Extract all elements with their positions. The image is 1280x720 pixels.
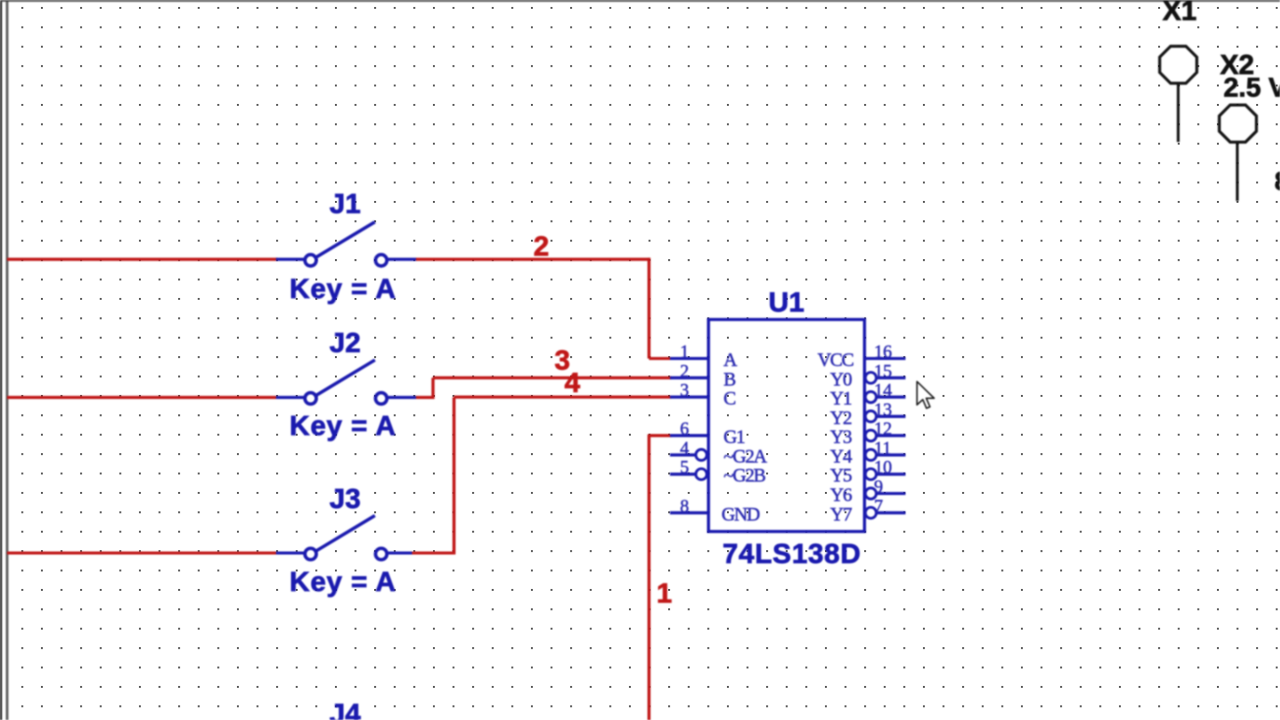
label J4 — [330, 698, 362, 720]
switch J2 — [276, 360, 417, 404]
svg-text:Y4: Y4 — [830, 446, 853, 467]
switch J3 — [276, 516, 413, 560]
pin 5 (~G2B) — [670, 457, 707, 480]
pin name Y7 — [830, 504, 852, 525]
pin 13 (Y2) — [865, 399, 905, 422]
switch J1 — [276, 222, 417, 266]
value label Key = A (J2) — [290, 410, 397, 441]
pin name ~G2B — [724, 466, 766, 487]
pin 8 (GND) — [670, 496, 709, 516]
label J3 — [330, 483, 361, 514]
pin name C — [724, 389, 736, 410]
svg-text:~G2A: ~G2A — [724, 446, 768, 467]
svg-text:Y2: Y2 — [830, 408, 852, 429]
svg-text:C: C — [724, 389, 736, 410]
label X3 (clipped at right edge) — [1275, 166, 1280, 196]
wire net4 J3 to pin3 — [412, 397, 672, 554]
pin name G1 — [724, 427, 746, 448]
mouse cursor — [917, 382, 934, 409]
pin name Y3 — [830, 427, 852, 448]
svg-text:14: 14 — [874, 380, 892, 400]
pin 12 (Y3) — [865, 419, 905, 442]
value label Key = A (J3) — [290, 566, 397, 597]
wire net4 J3-left segment — [7, 551, 278, 554]
svg-text:J3: J3 — [330, 483, 361, 514]
pin 1 (A) — [670, 342, 709, 362]
svg-text:12: 12 — [874, 419, 892, 439]
svg-text:5: 5 — [680, 457, 689, 477]
svg-text:Key = A: Key = A — [290, 566, 397, 597]
svg-text:G1: G1 — [724, 427, 746, 448]
svg-text:X1: X1 — [1163, 0, 1197, 26]
svg-text:15: 15 — [874, 361, 892, 381]
wire net3 J2 to pin2 — [416, 378, 672, 399]
svg-text:J2: J2 — [330, 327, 361, 358]
label U1 — [769, 287, 805, 318]
pin name Y6 — [830, 485, 852, 506]
label J1 — [330, 188, 361, 219]
net number 3 — [555, 345, 571, 376]
svg-text:Key = A: Key = A — [290, 410, 397, 441]
pin name Y1 — [830, 389, 852, 410]
svg-text:2: 2 — [680, 361, 689, 381]
svg-text:8: 8 — [1275, 166, 1280, 196]
svg-text:A: A — [724, 350, 738, 371]
svg-text:B: B — [724, 369, 736, 390]
pin 15 (Y0) — [865, 361, 905, 384]
wire net1 G1 to J4 — [649, 434, 672, 720]
svg-text:4: 4 — [680, 438, 689, 458]
pin 4 (~G2A) — [670, 438, 707, 461]
value label 2.5 V (X2) — [1224, 73, 1280, 103]
value label Key = A (J1) — [290, 273, 397, 304]
pin name VCC — [818, 350, 854, 371]
svg-text:Y6: Y6 — [830, 485, 852, 506]
svg-text:1: 1 — [680, 342, 689, 362]
svg-text:Y5: Y5 — [830, 466, 852, 487]
pin 14 (Y1) — [865, 380, 905, 403]
pin name B — [724, 369, 736, 390]
label X1 — [1163, 0, 1197, 26]
svg-text:6: 6 — [680, 419, 689, 439]
pin 7 (Y7) — [865, 496, 905, 519]
net number 1 — [657, 578, 673, 609]
svg-text:J1: J1 — [330, 188, 361, 219]
svg-text:Y0: Y0 — [830, 369, 852, 390]
svg-text:11: 11 — [874, 438, 891, 458]
svg-text:8: 8 — [680, 496, 689, 516]
svg-text:74LS138D: 74LS138D — [723, 538, 862, 569]
pin name ~G2A — [724, 446, 768, 467]
pin 16 (VCC) — [865, 342, 906, 362]
pin 10 (Y5) — [865, 457, 905, 480]
pin 9 (Y6) — [865, 477, 905, 500]
svg-text:13: 13 — [874, 399, 892, 419]
probe X2 — [1219, 105, 1256, 201]
svg-text:2.5 V: 2.5 V — [1224, 73, 1280, 103]
svg-text:VCC: VCC — [818, 350, 854, 371]
pin 11 (Y4) — [865, 438, 905, 461]
wire net2 J1 to pin1 — [416, 258, 672, 359]
svg-text:Y1: Y1 — [830, 389, 852, 410]
pin name Y2 — [830, 408, 852, 429]
svg-text:GND: GND — [722, 504, 760, 525]
svg-text:1: 1 — [657, 578, 673, 609]
value label 74LS138D — [723, 538, 862, 569]
pin name Y5 — [830, 466, 852, 487]
svg-text:J4: J4 — [330, 698, 362, 720]
pin name GND — [722, 504, 760, 525]
pin name Y0 — [830, 369, 852, 390]
pin name A — [724, 350, 738, 371]
svg-text:9: 9 — [874, 477, 883, 497]
net number 2 — [534, 231, 550, 262]
svg-text:Y7: Y7 — [830, 504, 852, 525]
svg-text:Key = A: Key = A — [290, 273, 397, 304]
svg-text:4: 4 — [565, 367, 581, 398]
label J2 — [330, 327, 361, 358]
svg-text:10: 10 — [874, 457, 892, 477]
op-amp U1 74LS138D body — [709, 320, 865, 532]
net number 4 — [565, 367, 581, 398]
svg-text:Y3: Y3 — [830, 427, 852, 448]
svg-text:2: 2 — [534, 231, 550, 262]
svg-text:U1: U1 — [769, 287, 805, 318]
pin 6 (G1) — [670, 419, 709, 439]
wire net3 J2-left segment — [7, 396, 278, 399]
svg-text:16: 16 — [874, 342, 892, 362]
svg-text:~G2B: ~G2B — [724, 466, 766, 487]
svg-text:3: 3 — [680, 380, 689, 400]
pin 3 (C) — [670, 380, 709, 400]
probe X1 — [1160, 46, 1197, 142]
pin name Y4 — [830, 446, 853, 467]
svg-text:7: 7 — [874, 496, 883, 516]
label X2 — [1220, 49, 1254, 80]
wire net2 J1-left segment — [7, 258, 278, 261]
pin 2 (B) — [670, 361, 709, 381]
